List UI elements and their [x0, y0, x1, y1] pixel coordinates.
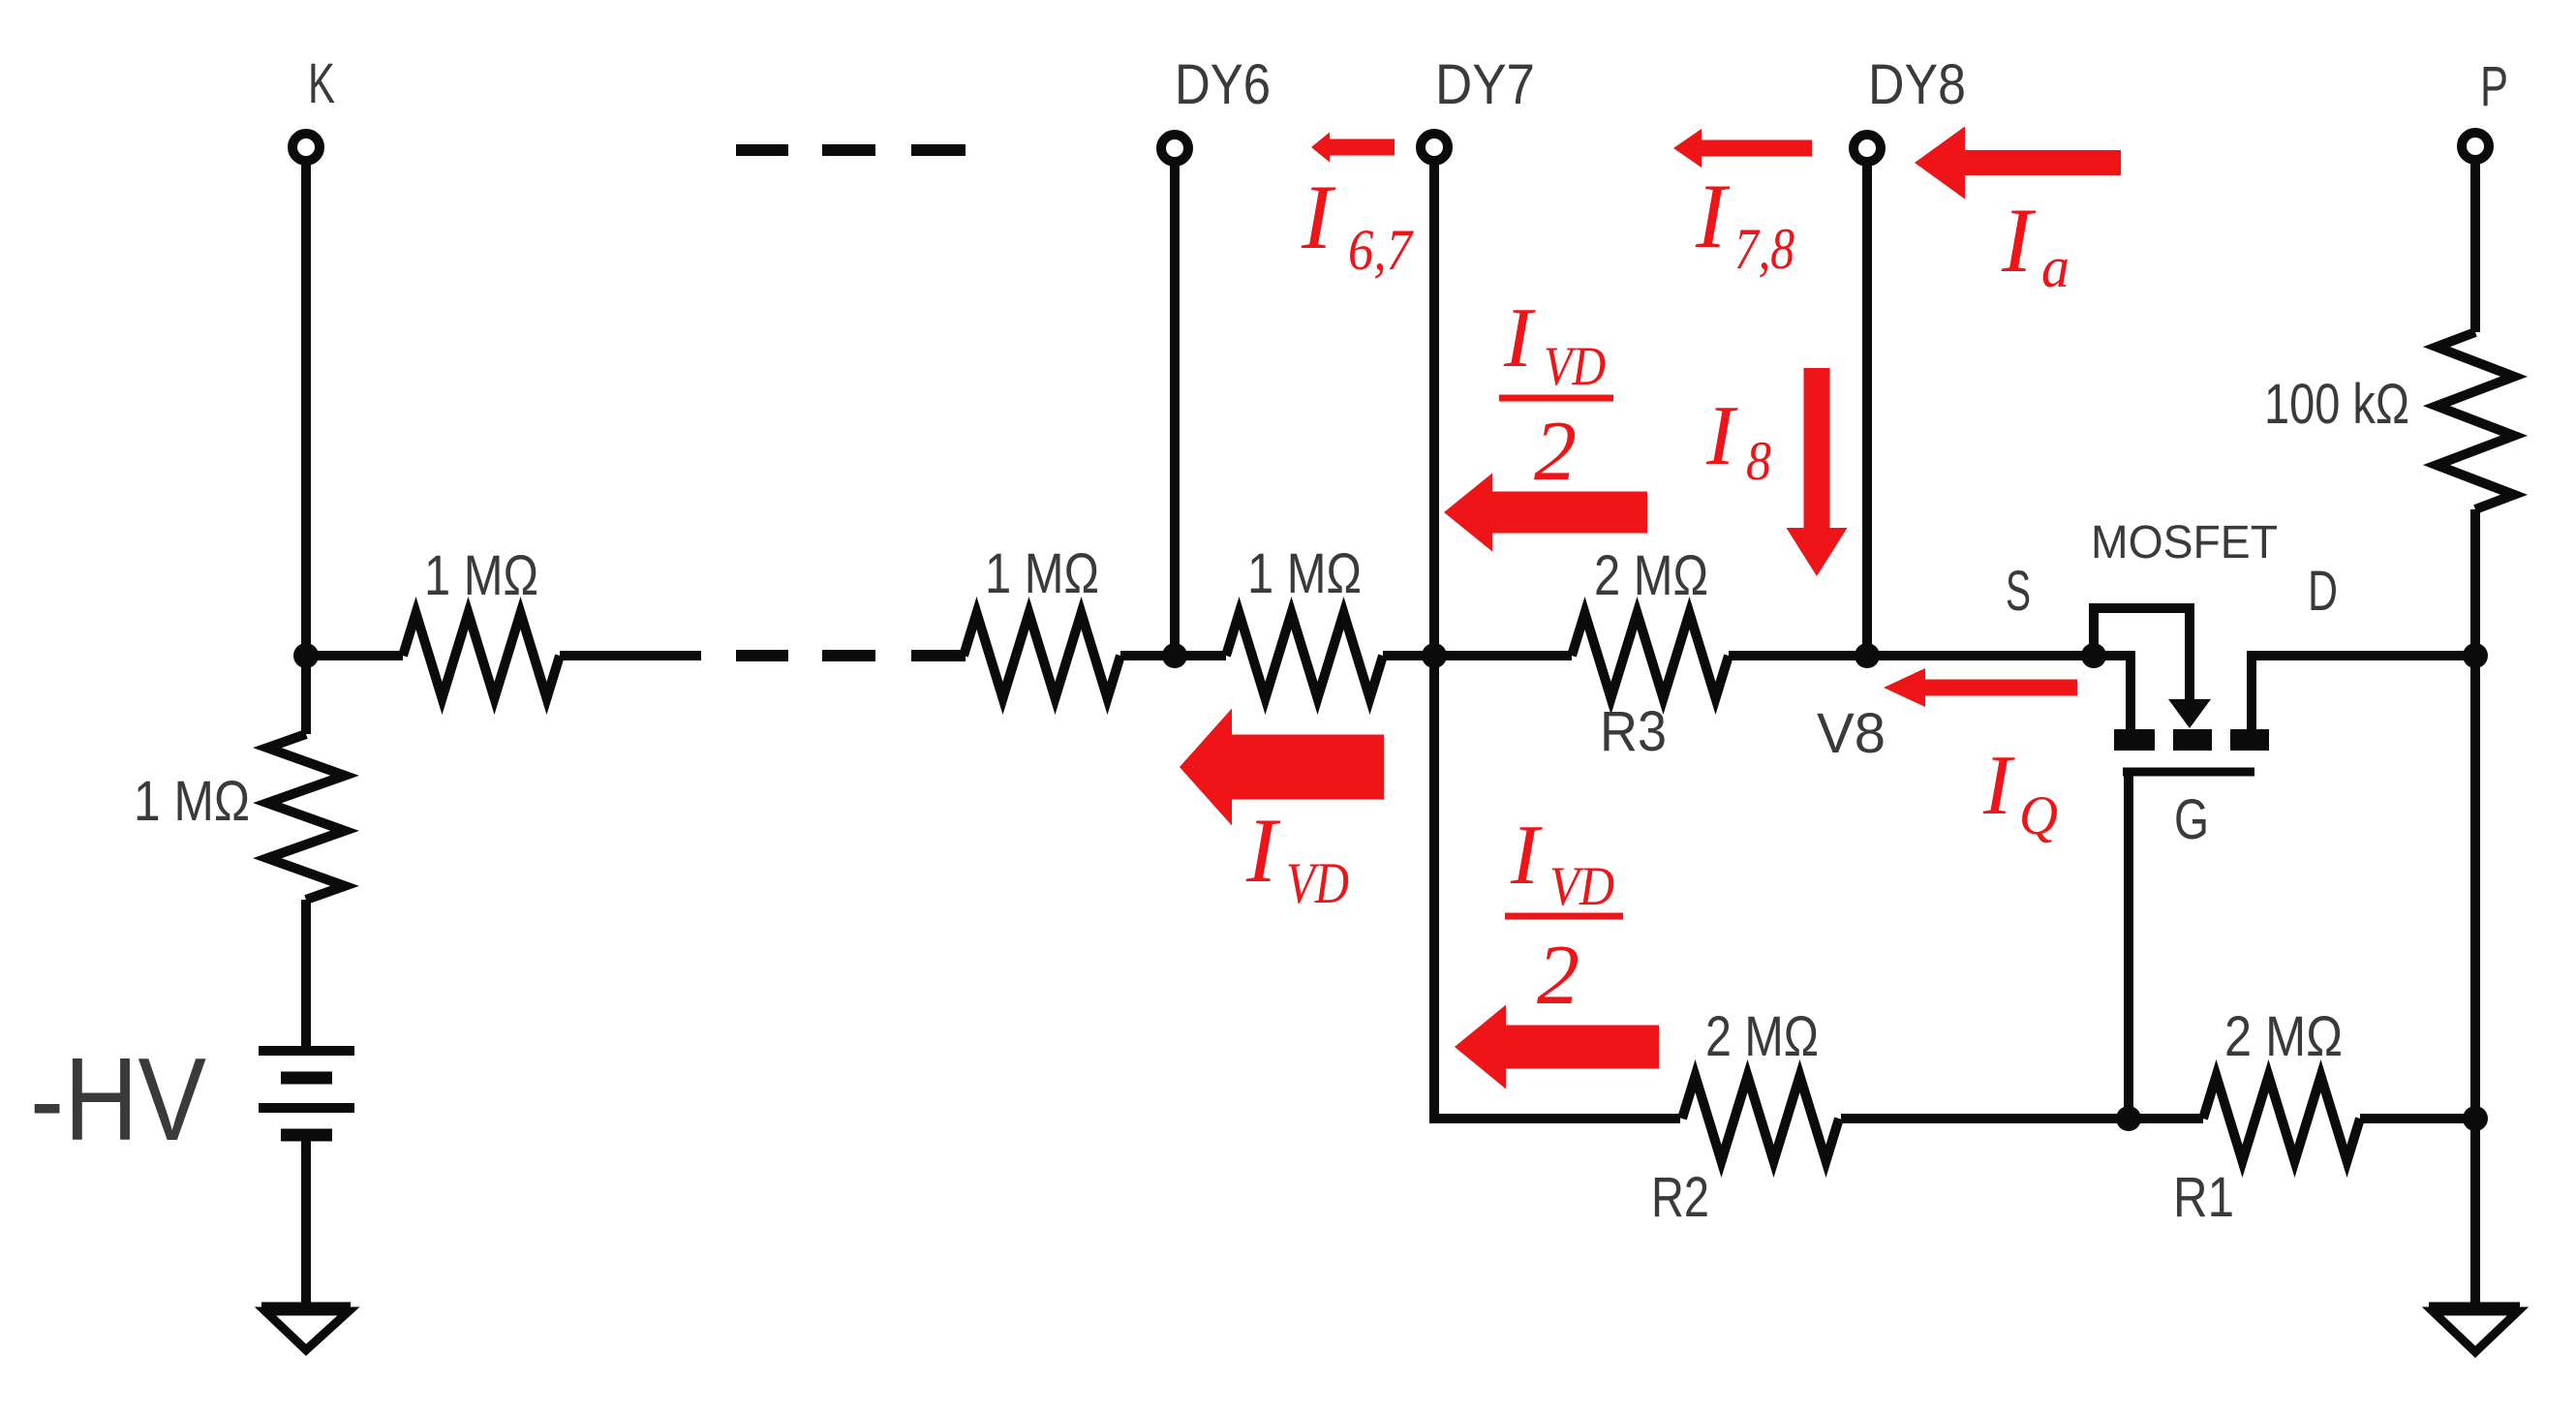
ground (right): [2429, 1303, 2520, 1311]
terminal DY7: [1421, 134, 1448, 161]
current arrow IQ: [1884, 668, 2077, 707]
svg-text:8: 8: [1746, 431, 1771, 492]
svg-text:K: K: [308, 52, 335, 115]
node DY6 junction: [1162, 643, 1187, 668]
svg-text:I: I: [1301, 166, 1336, 268]
svg-text:D: D: [2308, 560, 2338, 623]
wire: [1434, 651, 1572, 660]
terminal DY8: [1854, 135, 1881, 162]
resistor R2 2 MΩ: [1682, 1076, 1839, 1161]
svg-text:V8: V8: [1817, 702, 1886, 765]
wire: [2470, 509, 2480, 1119]
svg-text:R3: R3: [1600, 700, 1667, 763]
wire (gate): [2124, 772, 2133, 1119]
body diode arrow (MOSFET): [2168, 699, 2211, 728]
resistor 1 MΩ (K to chain): [403, 613, 560, 698]
svg-text:a: a: [2041, 235, 2070, 299]
svg-text:I: I: [1510, 809, 1543, 903]
wire: [301, 656, 311, 734]
terminal DY6: [1161, 135, 1188, 162]
svg-text:2: 2: [1537, 929, 1579, 1023]
svg-text:MOSFET: MOSFET: [2091, 517, 2278, 568]
resistor 1 MΩ (cathode): [267, 734, 345, 900]
resistor 1 MΩ (DY6 to DY7): [1226, 613, 1383, 698]
battery -HV plate: [281, 1072, 332, 1085]
dashed wire (dynode chain continuation, top): [736, 144, 788, 156]
wire: [2470, 1119, 2480, 1306]
svg-text:1 MΩ: 1 MΩ: [134, 770, 250, 833]
wire (MOSFET body loop): [2094, 608, 2190, 703]
resistor 1 MΩ (chain to DY6): [964, 613, 1120, 698]
current arrow I8: [1787, 368, 1848, 576]
current arrow IVD: [1180, 709, 1384, 826]
svg-text:S: S: [2006, 560, 2031, 623]
wire: [1862, 162, 1872, 656]
wire: [306, 651, 403, 660]
svg-text:I: I: [1982, 739, 2015, 833]
svg-text:1 MΩ: 1 MΩ: [985, 542, 1099, 605]
svg-text:G: G: [2174, 788, 2209, 851]
battery -HV plate: [259, 1046, 354, 1056]
terminal K: [292, 134, 320, 161]
current arrow I7,8: [1673, 129, 1812, 168]
current arrow IVD/2 (upper): [1444, 474, 1647, 552]
svg-text:1 MΩ: 1 MΩ: [424, 544, 538, 607]
node DY8 / V8 junction: [1855, 643, 1880, 668]
wire: [560, 651, 701, 660]
svg-text:DY7: DY7: [1435, 53, 1535, 116]
wire: [1867, 651, 2094, 660]
node gate junction: [2116, 1106, 2141, 1131]
wire: [301, 161, 311, 656]
wire: [301, 900, 311, 1051]
resistor R1 2 MΩ: [2203, 1076, 2360, 1161]
svg-text:100 kΩ: 100 kΩ: [2264, 373, 2409, 436]
svg-text:DY8: DY8: [1868, 53, 1966, 116]
svg-text:2 MΩ: 2 MΩ: [2224, 1005, 2343, 1068]
svg-text:VD: VD: [1549, 856, 1614, 917]
wire: [1175, 651, 1226, 660]
wire (source stub): [2094, 656, 2131, 730]
svg-text:R2: R2: [1651, 1166, 1709, 1229]
svg-text:I: I: [1503, 291, 1536, 385]
wire: [1434, 656, 1680, 1119]
terminal P: [2462, 133, 2489, 160]
wire: [301, 1135, 311, 1306]
dashed wire (bus continuation): [736, 650, 788, 661]
wire: [2470, 160, 2480, 332]
node D bus junction: [2463, 643, 2488, 668]
wire: [1120, 651, 1175, 660]
current arrow I6,7: [1311, 133, 1395, 163]
node K bus junction: [293, 643, 319, 668]
wire: [1429, 161, 1439, 656]
node DY7 junction: [1422, 643, 1447, 668]
svg-text:Q: Q: [2019, 785, 2058, 846]
svg-text:I: I: [1695, 165, 1731, 267]
resistor R3 2 MΩ: [1572, 613, 1729, 698]
resistor 100 kΩ: [2437, 332, 2514, 509]
wire: [1383, 651, 1434, 660]
svg-text:6,7: 6,7: [1348, 218, 1415, 282]
svg-text:R1: R1: [2173, 1166, 2234, 1229]
battery -HV plate: [281, 1129, 332, 1142]
svg-text:7,8: 7,8: [1734, 217, 1794, 281]
svg-text:2 MΩ: 2 MΩ: [1705, 1005, 1819, 1068]
svg-text:DY6: DY6: [1175, 53, 1271, 116]
svg-text:2 MΩ: 2 MΩ: [1594, 544, 1708, 607]
node S junction: [2081, 643, 2106, 668]
wire: [1841, 1114, 2129, 1123]
wire: [1170, 162, 1180, 656]
node right bottom junction: [2463, 1106, 2488, 1131]
ground (left): [261, 1303, 351, 1311]
svg-text:VD: VD: [1544, 336, 1606, 397]
svg-text:1 MΩ: 1 MΩ: [1247, 542, 1362, 605]
wire: [1729, 651, 1867, 660]
drain contact pad: [2230, 729, 2269, 751]
svg-text:VD: VD: [1286, 851, 1349, 915]
svg-text:I: I: [1245, 799, 1281, 902]
svg-text:I: I: [1705, 389, 1738, 483]
source contact pad: [2114, 729, 2155, 751]
current arrow IVD/2 (lower): [1455, 1005, 1659, 1089]
wire (drain): [2252, 656, 2475, 730]
wire: [2129, 1114, 2203, 1123]
svg-text:2: 2: [1534, 405, 1577, 499]
battery -HV plate: [259, 1103, 354, 1113]
gate bar: [2123, 768, 2254, 777]
body contact pad: [2173, 729, 2212, 751]
wire: [2360, 1114, 2475, 1123]
svg-text:-HV: -HV: [30, 1033, 206, 1165]
current arrow Ia: [1915, 127, 2121, 199]
svg-text:P: P: [2480, 55, 2508, 118]
svg-text:I: I: [2001, 189, 2037, 291]
